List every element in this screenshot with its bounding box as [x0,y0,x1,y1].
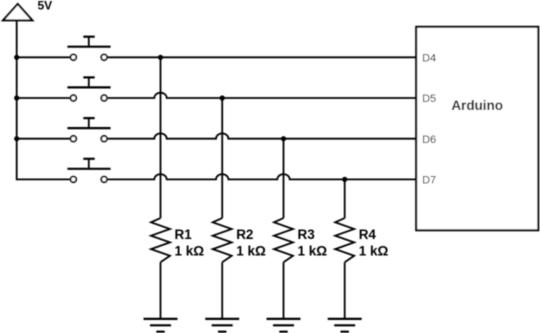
svg-text:1 kΩ: 1 kΩ [175,244,205,259]
svg-text:D4: D4 [422,53,436,65]
svg-text:D7: D7 [422,175,436,187]
svg-text:R1: R1 [175,227,193,242]
svg-text:D6: D6 [422,134,436,146]
svg-text:D5: D5 [422,93,436,105]
svg-text:R4: R4 [359,227,377,242]
svg-text:5V: 5V [38,0,53,12]
svg-text:1 kΩ: 1 kΩ [298,244,328,259]
svg-text:Arduino: Arduino [451,98,503,113]
svg-text:1 kΩ: 1 kΩ [236,244,266,259]
svg-text:1 kΩ: 1 kΩ [359,244,389,259]
svg-text:R3: R3 [298,227,316,242]
svg-text:R2: R2 [236,227,253,242]
